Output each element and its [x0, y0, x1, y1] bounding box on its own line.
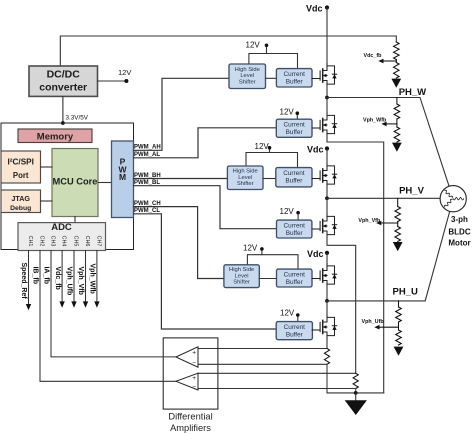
ground arrow (Vph_Vfb divider)	[393, 242, 403, 251]
svg-text:Shifter: Shifter	[239, 79, 256, 85]
current buffer U7	[276, 168, 312, 187]
svg-text:CH6: CH6	[84, 236, 90, 247]
transistor Q3 (phase V high MOSFET)	[312, 164, 337, 188]
Memory block	[18, 129, 92, 143]
wire Q1 source to PH_W node	[326, 88, 328, 98]
svg-text:Level: Level	[235, 273, 249, 279]
svg-text:CH7: CH7	[95, 236, 101, 247]
svg-text:CH4: CH4	[61, 236, 67, 247]
wire Vdc top rail from DC/DC converter to Vdc_fb divider	[60, 36, 396, 66]
svg-text:CH1: CH1	[27, 236, 33, 247]
svg-text:ADC: ADC	[51, 222, 72, 233]
resistor R3 (Vdc_fb divider)	[394, 42, 400, 60]
wire PH_V to Q4 drain	[326, 198, 328, 214]
svg-text:12V: 12V	[280, 108, 295, 117]
MCU boundary box	[1, 123, 134, 250]
wire PWM_BL	[134, 186, 277, 229]
svg-text:Current: Current	[284, 324, 306, 331]
transistor Q5 (phase U high MOSFET)	[312, 264, 337, 288]
svg-text:+: +	[192, 375, 196, 382]
wire Vdc to Q3 drain	[326, 149, 328, 164]
node 12V dot (phase W low)	[296, 111, 300, 115]
wire PWM_AL	[134, 128, 277, 158]
wire Vdc bus to Q1 drain	[326, 8, 328, 64]
high side level shifter U6	[227, 166, 263, 190]
svg-text:Level: Level	[238, 175, 252, 181]
wire shifter U9 to buffer U10	[259, 278, 276, 280]
ground arrow (Vph_Ufb divider)	[394, 347, 404, 356]
svg-text:Buffer: Buffer	[286, 331, 304, 338]
resistor R1 (phase U shunt)	[324, 349, 329, 365]
transistor Q4 (phase V low MOSFET)	[312, 214, 337, 238]
wire 12V stub (phase W low driver)	[296, 114, 298, 119]
svg-text:+: +	[192, 349, 196, 356]
svg-text:Vph_Ufb: Vph_Ufb	[66, 267, 73, 296]
svg-text:IA_fb: IA_fb	[43, 267, 50, 285]
svg-text:BLDC: BLDC	[448, 228, 470, 237]
op-amp U12	[176, 347, 198, 367]
svg-text:3.3V/5V: 3.3V/5V	[66, 115, 89, 122]
wire PWM_AH	[134, 78, 230, 150]
svg-text:JTAG: JTAG	[11, 194, 30, 203]
svg-text:Vph_Vfb: Vph_Vfb	[77, 267, 84, 295]
svg-text:PH_W: PH_W	[399, 87, 426, 98]
svg-text:12V: 12V	[243, 244, 258, 253]
wire 12V rail (phase W high driver)	[249, 54, 298, 69]
svg-text:12V: 12V	[255, 142, 270, 151]
svg-text:CH2: CH2	[38, 236, 44, 247]
wire 12V stub (phase V low driver)	[297, 215, 299, 220]
svg-text:MCU Core: MCU Core	[53, 176, 98, 186]
node ground junction	[354, 391, 358, 395]
svg-text:IB_fb: IB_fb	[32, 267, 39, 285]
node Vdc terminal (top)	[306, 3, 329, 13]
I2C/SPI Port block	[1, 151, 41, 183]
wire PH_U phase line to motor	[327, 211, 450, 301]
wire op-amp1 - input to R1 bottom	[198, 363, 327, 365]
svg-text:converter: converter	[39, 82, 87, 94]
wire PH_U to Q6 drain	[326, 301, 328, 315]
JTAG Debug block	[1, 190, 41, 213]
node 12V dot (phase V low)	[296, 211, 300, 215]
svg-text:I²C/SPI: I²C/SPI	[8, 158, 34, 167]
wire 3.3V/5V from DC/DC to MCU	[62, 97, 64, 124]
wire CH2 IB_fb from op-amp2 output	[40, 251, 176, 382]
node Vdc terminal (bottom)	[307, 249, 329, 259]
wire MCU Core to ADC	[74, 217, 76, 223]
svg-text:Shifter: Shifter	[237, 181, 254, 187]
wire 12V stub (phase U low driver)	[297, 316, 299, 321]
svg-text:Buffer: Buffer	[286, 279, 304, 286]
svg-text:Buffer: Buffer	[285, 177, 303, 184]
svg-text:Buffer: Buffer	[286, 129, 304, 136]
svg-text:12V: 12V	[118, 68, 131, 77]
wire op-amp1 + input to R1 top	[198, 348, 327, 350]
wire CH1 Speed_Ref with arrow	[26, 251, 31, 311]
node PH_U junction	[325, 299, 329, 303]
wire PWM_BH	[134, 178, 228, 180]
svg-text:M: M	[119, 172, 126, 182]
svg-text:Current: Current	[284, 71, 306, 78]
svg-text:Vph_Ufb: Vph_Ufb	[362, 319, 385, 325]
svg-text:Memory: Memory	[37, 131, 74, 142]
svg-text:Vdc_fb: Vdc_fb	[54, 267, 61, 290]
wire shifter U3 to buffer U4	[266, 77, 277, 79]
wire CH7 Vph_Wfb with arrow	[94, 251, 99, 308]
current buffer U4	[276, 69, 312, 87]
svg-text:Vdc: Vdc	[307, 144, 324, 154]
wire MCU Core to PWM	[98, 182, 112, 184]
svg-text:Current: Current	[283, 170, 305, 177]
transistor Q1 (phase W high MOSFET)	[312, 64, 337, 88]
svg-text:CH3: CH3	[49, 236, 55, 247]
svg-text:3-ph: 3-ph	[451, 215, 468, 224]
svg-text:Current: Current	[284, 223, 306, 230]
svg-text:Level: Level	[240, 73, 254, 79]
wire CH4 Vdc_fb with arrow	[59, 251, 64, 308]
svg-text:Current: Current	[283, 122, 305, 129]
svg-text:Speed_Ref: Speed_Ref	[20, 263, 27, 300]
ADC block	[18, 222, 106, 251]
svg-text:Vdc: Vdc	[307, 249, 324, 259]
wire Vph_Wfb tap arrow	[381, 122, 397, 127]
transistor Q6 (phase U low MOSFET)	[312, 315, 337, 339]
wire PH_W to Q2 drain	[326, 98, 328, 114]
MCU Core block	[52, 149, 98, 217]
op-amp U13	[176, 373, 198, 391]
wire CH5 Vph_Ufb with arrow	[71, 251, 76, 308]
wire JTAG Debug to MCU Core	[41, 200, 53, 202]
wire Vph_Vfb tap arrow	[376, 221, 398, 226]
svg-text:Vph_Vfb: Vph_Vfb	[358, 218, 381, 224]
wire Q4 source to sense resistor R2	[327, 238, 356, 373]
node 12V terminal dot	[124, 79, 128, 83]
wire PWM_CH	[134, 207, 224, 279]
node 3.3V/5V junction	[61, 121, 65, 125]
svg-text:Shifter: Shifter	[233, 280, 250, 286]
label Differential Amplifiers	[168, 411, 212, 433]
ground	[345, 393, 367, 415]
svg-text:DC/DC: DC/DC	[47, 68, 81, 80]
wire R1 bottom to ground rail	[326, 364, 328, 393]
svg-text:Vdc: Vdc	[306, 3, 323, 13]
svg-text:PH_U: PH_U	[393, 286, 418, 297]
svg-text:High Side: High Side	[233, 169, 258, 175]
svg-text:Current: Current	[284, 272, 306, 279]
svg-text:Debug: Debug	[10, 205, 31, 212]
svg-text:CH5: CH5	[72, 236, 78, 247]
wire PH_V phase line to motor	[327, 197, 440, 199]
wire Q2 source to ground rail (right vertical)	[327, 137, 384, 393]
svg-text:Differential: Differential	[168, 411, 212, 421]
node 12V dot (phase U low)	[296, 313, 300, 317]
transistor Q2 (phase W low MOSFET)	[312, 113, 337, 137]
wire op-amp2 + input to R2 top	[198, 372, 356, 374]
ground arrow (Vph_Wfb divider)	[392, 143, 402, 152]
svg-text:−: −	[192, 384, 196, 391]
high side level shifter U9	[224, 265, 259, 288]
wire PWM_CL	[134, 214, 277, 329]
node PH_V junction	[325, 196, 329, 200]
wire Vdc to Q5 drain	[326, 254, 328, 264]
svg-text:High Side: High Side	[235, 67, 260, 73]
svg-text:Motor: Motor	[448, 239, 470, 248]
resistor R6 (Vph_Ufb divider)	[398, 301, 400, 307]
motor M1 (3-ph BLDC)	[440, 186, 471, 248]
wire CH3 IA_fb from op-amp1 output	[51, 251, 176, 357]
svg-text:−: −	[192, 360, 196, 367]
high side level shifter U3	[229, 64, 266, 89]
wire PH_W phase line to motor	[327, 98, 449, 187]
wire 12V output of DC/DC converter	[98, 80, 127, 82]
wire Vph_Ufb tap arrow	[374, 325, 398, 330]
resistor R2 (phase V shunt)	[353, 373, 358, 388]
svg-text:Vph_Wfb: Vph_Wfb	[89, 264, 96, 294]
svg-text:12V: 12V	[280, 308, 295, 317]
wire CH6 Vph_Vfb with arrow	[83, 251, 88, 308]
current buffer U5	[276, 119, 312, 137]
wire 12V rail (phase V high driver)	[246, 153, 298, 168]
wire 12V rail (phase U high driver)	[247, 255, 298, 269]
wire ground rail	[327, 392, 384, 394]
wire I2C/SPI Port to MCU Core	[41, 166, 53, 168]
current buffer U8	[277, 220, 312, 238]
ground arrow (Vdc_fb divider)	[391, 79, 401, 88]
svg-text:PH_V: PH_V	[399, 185, 424, 196]
current buffer U11	[276, 322, 312, 340]
wire Vdc_fb tap arrow	[378, 59, 396, 64]
differential amplifiers box	[163, 338, 218, 409]
PWM block	[112, 141, 134, 218]
resistor R4 (Vph_Wfb divider)	[396, 98, 398, 105]
DC/DC converter U2	[29, 66, 98, 96]
svg-text:Amplifiers: Amplifiers	[170, 423, 211, 433]
svg-text:Port: Port	[13, 171, 29, 180]
svg-text:Vdc_fb: Vdc_fb	[364, 53, 383, 59]
wire shifter U6 to buffer U7	[263, 178, 276, 180]
wire op-amp2 - input to R2 bottom	[198, 388, 356, 390]
node Vdc terminal (middle)	[307, 144, 329, 154]
wire R2 bottom to ground rail	[355, 389, 357, 393]
resistor R5 (Vph_Vfb divider)	[397, 198, 399, 206]
node PH_W junction	[325, 96, 329, 100]
wire Q5 source to PH_U node	[326, 288, 328, 301]
svg-text:Buffer: Buffer	[286, 230, 304, 237]
svg-text:12V: 12V	[280, 207, 295, 216]
wire Q6 source to sense resistor R1	[326, 339, 328, 349]
svg-text:Buffer: Buffer	[286, 78, 304, 85]
wire Q3 source to PH_V node	[326, 188, 328, 199]
svg-text:Vph_Wfb: Vph_Wfb	[363, 118, 387, 124]
svg-text:12V: 12V	[246, 40, 261, 49]
svg-text:High Side: High Side	[229, 267, 254, 273]
current buffer U10	[277, 269, 313, 287]
